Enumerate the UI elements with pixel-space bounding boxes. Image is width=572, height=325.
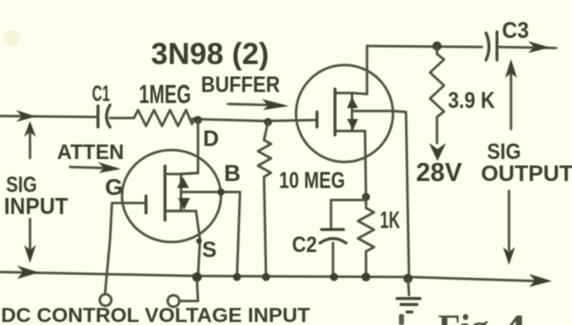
- svg-text:C2: C2: [292, 232, 317, 257]
- svg-text:3.9 K: 3.9 K: [448, 87, 495, 113]
- Q1 channel arrows: [177, 177, 189, 188]
- junction node: 10MEG tap: [264, 118, 272, 126]
- transistor Q2 (3N98 buffer): [296, 65, 393, 162]
- wire: output after C3: [499, 47, 556, 48]
- wire: top signal line left segment: [0, 116, 96, 117]
- capacitor C2: [322, 228, 344, 231]
- junction: bulk at circle edge: [217, 188, 224, 195]
- junction: 1K at rail: [362, 273, 371, 282]
- arrow: sig output lower: [508, 191, 511, 250]
- transistor Q1 (3N98 attenuator): [122, 150, 221, 242]
- Q2 channel bracket: [337, 93, 352, 131]
- terminal: DC control input 2: [168, 295, 180, 307]
- wire: source node to C2: [331, 200, 366, 228]
- resistor 1K: [358, 197, 374, 276]
- svg-text:BUFFER: BUFFER: [201, 72, 280, 97]
- Q1 channel bracket: [167, 174, 181, 211]
- svg-text:Fig.: Fig.: [438, 306, 498, 325]
- resistor 10MEG: [258, 122, 271, 276]
- wire: Q2 drain to supply rail: [366, 46, 369, 94]
- wire: resistor to Q2 gate: [192, 119, 317, 121]
- resistor 3.9K: [430, 46, 444, 143]
- wire: bottom common rail: [0, 272, 536, 281]
- arrowhead on rail (right end): [529, 274, 552, 287]
- svg-text:D: D: [203, 126, 219, 151]
- wire: Q2 bulk to ground: [354, 111, 409, 277]
- paper smudge: [4, 30, 20, 46]
- terminal: DC control input 1: [100, 294, 112, 306]
- svg-text:4: 4: [502, 306, 526, 325]
- wire: Q1 drain: [181, 120, 198, 174]
- svg-text:ATTEN: ATTEN: [57, 141, 124, 164]
- svg-text:S: S: [202, 237, 217, 262]
- arrow: atten pointer: [70, 167, 104, 168]
- Q2 channel arrows: [347, 97, 358, 108]
- junction node D on signal line: [194, 116, 202, 124]
- input arrowhead on top line: [16, 110, 36, 122]
- arrow: sig input lower: [29, 219, 32, 250]
- Q2 gate plate: [334, 89, 337, 135]
- svg-text:C1: C1: [92, 81, 110, 106]
- svg-text:G: G: [105, 174, 123, 200]
- svg-text:1K: 1K: [380, 207, 400, 234]
- wire: terminal 2 to rail: [180, 281, 198, 301]
- svg-text:C3: C3: [502, 17, 529, 43]
- svg-text:28V: 28V: [416, 157, 463, 187]
- Q2 gate stub: [316, 112, 319, 127]
- junction: bulk Q1 at rail: [233, 273, 241, 281]
- svg-text:OUTPUT: OUTPUT: [481, 161, 572, 186]
- Q1 source arm: [167, 210, 196, 213]
- Q1 gate plate: [164, 166, 167, 220]
- svg-text:DC CONTROL VOLTAGE INPUT: DC CONTROL VOLTAGE INPUT: [1, 305, 310, 325]
- junction: ground at rail: [403, 274, 412, 283]
- svg-text:B: B: [224, 160, 241, 186]
- Q2 drain arm: [352, 93, 367, 94]
- wire: Q1 gate to DC control terminal 1: [105, 203, 146, 294]
- junction: 3.9K tap: [432, 41, 441, 50]
- arrow: sig input upper: [29, 132, 32, 158]
- svg-text:INPUT: INPUT: [4, 193, 68, 219]
- junction: S / terminal 2 node: [192, 272, 202, 282]
- svg-text:1MEG: 1MEG: [139, 79, 191, 109]
- arrow: sig output upper: [510, 74, 513, 129]
- Q1 drain arm: [181, 173, 198, 174]
- junction blob on source wire: [196, 238, 202, 244]
- svg-text:10 MEG: 10 MEG: [279, 167, 345, 193]
- junction: source node: [362, 193, 370, 201]
- wire: supply rail: [367, 46, 482, 47]
- arrow: 28V supply point: [429, 143, 446, 161]
- wire: Q2 source node: [365, 131, 366, 197]
- Q1 gate stub: [145, 196, 148, 213]
- capacitor C3: [486, 33, 489, 60]
- wire: Q1 source to common rail: [196, 211, 200, 276]
- wire: Q1 bulk to common rail: [182, 192, 240, 276]
- junction: C2 at rail: [330, 273, 338, 281]
- wire: C1 to resistor: [110, 117, 133, 120]
- stray mark left of caption: [399, 314, 404, 325]
- junction: 10MEG at rail: [262, 273, 270, 281]
- arrowhead on rail (left): [17, 266, 39, 280]
- resistor 1MEG: [134, 110, 195, 126]
- svg-text:3N98 (2): 3N98 (2): [151, 36, 269, 71]
- arrow: buffer pointer: [228, 104, 270, 105]
- ground: [408, 278, 409, 295]
- Q2 source arm: [352, 130, 365, 133]
- capacitor C1: [97, 106, 100, 127]
